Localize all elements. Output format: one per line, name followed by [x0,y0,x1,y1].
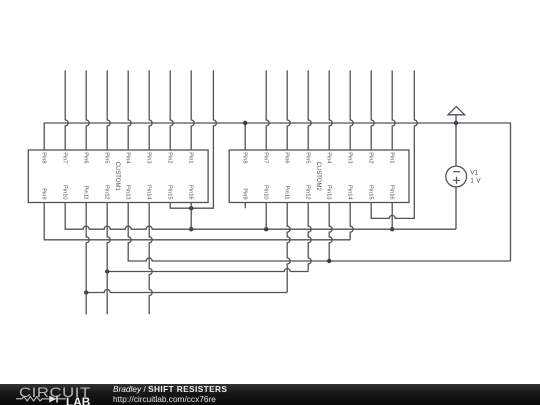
wire U2 Pin6 vertical with hop over rail [287,70,290,150]
svg-text:CUSTOM1: CUSTOM1 [114,162,120,192]
svg-text:Pin9: Pin9 [41,188,47,199]
junction U2 Pin10 on net A [264,227,268,231]
svg-text:Pin3: Pin3 [146,152,152,163]
wire U2 Pin4 vertical with hop over rail [329,70,332,150]
svg-text:Pin1: Pin1 [389,152,395,163]
svg-text:Pin5: Pin5 [305,152,311,163]
CircuitLab logo wordmark [19,386,150,398]
junction net E tap on U1 Pin11 wire [84,290,88,294]
wire U1 Pin7 vertical with hop over rail [65,70,68,150]
wire top rail from U1 Pin8 across to right edge drop [44,123,510,261]
svg-text:Pin4: Pin4 [326,152,332,163]
svg-text:Pin11: Pin11 [284,185,290,199]
wire U2 Pin12 vertical to net D (hops over nets A,B,C) [308,203,311,272]
svg-text:Pin2: Pin2 [368,152,374,163]
wire U2 Pin1 vertical with hop over rail [392,70,395,150]
footer url line [113,394,216,404]
svg-text:Pin13: Pin13 [326,185,332,200]
wire U1 Pin12 vertical (dangling end, hop over net B) [107,203,110,315]
footer credit line [113,383,227,393]
logo diode symbol [49,396,56,403]
junction power/V1 on rail [454,121,458,125]
svg-text:Pin14: Pin14 [146,185,152,200]
wire U2 Pin2 vertical with hop over rail [371,70,374,150]
wire U2 Pin10 to net A [265,203,267,230]
junction U1 Pin16 on wrap wire [189,206,193,210]
wire U2 Pin9 open stub [244,203,246,209]
wire net E rail (U1 Pin11 tap to U2 Pin11) [86,290,287,293]
wire U2 Pin13 to net C (hops over nets A,B) [329,203,332,262]
power flag above V1 [448,107,465,115]
svg-text:Pin12: Pin12 [305,185,311,200]
voltage source V1 circle [446,166,467,187]
wire U1 Pin6 vertical with hop over rail [86,70,89,150]
wire power flag stub [455,115,457,123]
wire U2 Pin7 vertical with hop over rail [266,70,269,150]
wire U2 Pin16 vertical down to net A [391,203,393,230]
svg-text:Pin11: Pin11 [83,185,89,199]
svg-text:Pin8: Pin8 [242,152,248,163]
wire U2 Pin8 to rail [244,123,246,150]
svg-text:Pin15: Pin15 [368,185,374,200]
wire U1 Pin2 vertical with hop over rail [170,70,173,150]
svg-text:Pin2: Pin2 [167,152,173,163]
wire U1 Pin3 vertical with hop over rail [149,70,152,150]
wire U2 Pin3 vertical with hop over rail [350,70,353,150]
svg-text:Pin13: Pin13 [125,185,131,200]
svg-text:Pin16: Pin16 [389,185,395,200]
footer bar [0,384,540,405]
wire U1 Pin15-Pin16 wrap to vertical at right of U1 [170,70,216,208]
svg-text:Pin5: Pin5 [104,152,110,163]
wire net A rail (U1 Pin10 to V1) [65,203,456,230]
wire net B rail (U1 Pin9 to U2 Pin14) [44,203,350,240]
V1 minus sign [453,171,460,173]
IC U2 (CUSTOM2) body [229,150,409,203]
logo resistor+diode glyph and LAB [16,395,68,404]
junction U2 Pin16 on net A rail [390,227,394,231]
wire U2 Pin14 vertical to net B (hop over net A) [350,203,353,240]
svg-text:Pin14: Pin14 [347,185,353,200]
V1 plus sign [453,177,460,184]
junction U2 Pin8 on rail [243,121,247,125]
svg-text:Pin7: Pin7 [263,152,269,163]
svg-text:Pin16: Pin16 [188,185,194,200]
junction U2 Pin13 on net C [327,259,331,263]
svg-text:Pin4: Pin4 [125,152,131,163]
wire net D rail (U1 Pin12 tap to U2 Pin12) [107,269,308,272]
wire rail to V1 top terminal [455,123,457,166]
svg-text:Pin7: Pin7 [62,152,68,163]
wire net C rail (U1 Pin13 to right edge loop) [128,203,510,262]
IC U1 (CUSTOM1) body [28,150,208,203]
wire U1 Pin14 vertical (dangling end, hops over nets B,D,E) [149,203,152,315]
wire V1 bottom terminal to net A [455,187,457,229]
junction net D tap on U1 Pin12 wire [105,269,109,273]
wire U1 Pin11 vertical (dangling end, hop over net B) [86,203,89,315]
svg-text:Pin9: Pin9 [242,188,248,199]
svg-text:V1: V1 [470,170,478,177]
wire U1 Pin16 vertical down to net A [190,203,192,230]
wire U2 Pin15 wrap to vertical at right of U2 (hop over Pin16 wire) [371,70,417,218]
svg-text:Pin6: Pin6 [284,152,290,163]
svg-text:Pin1: Pin1 [188,152,194,163]
svg-text:Pin15: Pin15 [167,185,173,200]
wire U1 Pin5 vertical with hop over rail [107,70,110,150]
wire U1 Pin4 vertical with hop over rail [128,70,131,150]
svg-text:Pin10: Pin10 [62,185,68,200]
wire U1 Pin1 vertical with hop over rail [191,70,194,150]
junction U1 Pin16 on net A rail [189,227,193,231]
svg-text:Pin6: Pin6 [83,152,89,163]
wire U2 Pin5 vertical with hop over rail [308,70,311,150]
svg-text:CUSTOM2: CUSTOM2 [315,162,321,192]
svg-text:Pin12: Pin12 [104,185,110,200]
logo LAB text [66,397,90,405]
wire U2 Pin11 vertical to net E (hops over nets A,B,C) [287,203,290,293]
svg-text:Pin8: Pin8 [41,152,47,163]
svg-text:Pin3: Pin3 [347,152,353,163]
logo resistor zigzag [16,397,49,401]
svg-text:Pin10: Pin10 [263,185,269,200]
svg-text:1 V: 1 V [470,177,481,184]
